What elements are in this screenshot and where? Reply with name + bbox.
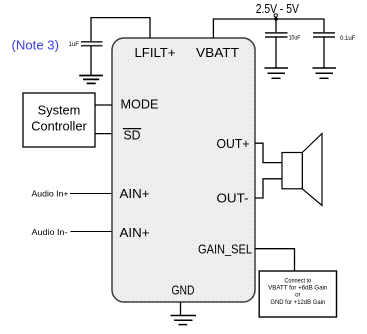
- svg-text:OUT+: OUT+: [217, 136, 250, 151]
- capacitor C1 1uF: [81, 42, 103, 46]
- wire C2 to ground: [275, 37, 277, 68]
- capacitor C2 10uF: [265, 33, 288, 37]
- wire LFILT+ to C1: [91, 18, 150, 42]
- svg-text:System: System: [38, 103, 81, 118]
- svg-text:Audio In+: Audio In+: [32, 189, 69, 198]
- ground below C2: [265, 68, 289, 78]
- svg-text:AIN+: AIN+: [120, 225, 150, 240]
- svg-text:Controller: Controller: [31, 119, 87, 134]
- junction dot: [274, 17, 278, 21]
- svg-text:MODE: MODE: [121, 97, 159, 112]
- supply terminal node: [274, 14, 277, 17]
- ground below C3: [313, 68, 337, 78]
- svg-text:LFILT+: LFILT+: [135, 45, 176, 60]
- svg-text:OUT-: OUT-: [217, 191, 249, 206]
- wire C1 to ground: [90, 46, 92, 76]
- svg-text:10uF: 10uF: [289, 36, 301, 42]
- wire controller to SD: [95, 133, 112, 135]
- wire Audio In+ to AIN+: [70, 193, 112, 195]
- svg-text:SD: SD: [124, 128, 141, 143]
- wire C3 to ground: [323, 37, 325, 68]
- svg-text:Connect to: Connect to: [284, 279, 311, 285]
- svg-text:1uF: 1uF: [69, 42, 80, 48]
- wire GAIN_SEL to option box: [255, 249, 295, 271]
- wire Audio In- to AIN+: [71, 231, 113, 233]
- system controller box: [23, 93, 95, 147]
- wire GND pin to ground: [180, 302, 182, 316]
- svg-text:GND for +12dB Gain: GND for +12dB Gain: [270, 300, 325, 306]
- svg-text:VBATT for +6dB Gain: VBATT for +6dB Gain: [268, 286, 327, 292]
- svg-text:AIN+: AIN+: [120, 186, 150, 201]
- wire controller to MODE: [95, 104, 112, 106]
- ground below GND pin: [171, 316, 197, 325]
- gain option box: [259, 271, 336, 317]
- wire rail to C2: [275, 19, 277, 33]
- pin label SD (active low): [123, 128, 141, 143]
- speaker LS1: [282, 134, 322, 206]
- svg-text:VBATT: VBATT: [196, 45, 239, 60]
- amplifier IC U1: [112, 38, 255, 302]
- svg-text:or: or: [295, 293, 300, 299]
- svg-text:2.5V - 5V: 2.5V - 5V: [256, 2, 300, 16]
- ground below C1: [79, 76, 103, 84]
- svg-text:(Note 3): (Note 3): [12, 38, 60, 53]
- capacitor C3 0.1uF: [313, 33, 335, 37]
- svg-text:0.1uF: 0.1uF: [340, 36, 356, 42]
- wire OUT+ to speaker: [255, 143, 282, 162]
- svg-text:GND: GND: [172, 283, 195, 298]
- svg-text:Audio In-: Audio In-: [32, 228, 68, 237]
- wire OUT- to speaker: [255, 179, 282, 198]
- wire VBATT supply rail: [213, 19, 324, 38]
- svg-text:GAIN_SEL: GAIN_SEL: [198, 242, 252, 257]
